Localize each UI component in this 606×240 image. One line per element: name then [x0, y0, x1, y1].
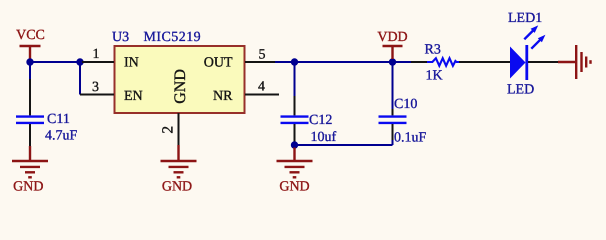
svg-text:GND: GND	[13, 180, 43, 195]
svg-text:GND: GND	[162, 180, 192, 195]
power symbol VDD	[377, 30, 407, 59]
svg-text:1: 1	[93, 47, 100, 62]
wire OUT to R3	[275, 61, 411, 63]
svg-text:4: 4	[258, 80, 265, 95]
node A junction	[76, 58, 83, 65]
svg-text:C10: C10	[394, 97, 417, 112]
svg-text:GND: GND	[279, 180, 309, 195]
svg-text:MIC5219: MIC5219	[144, 30, 202, 45]
svg-text:LED1: LED1	[508, 11, 542, 26]
svg-text:C11: C11	[47, 112, 70, 127]
svg-text:LED: LED	[507, 83, 534, 98]
wire LED to ground	[528, 61, 559, 63]
pin 2 GND	[160, 113, 179, 146]
pin 1 IN	[82, 47, 114, 62]
svg-text:C12: C12	[309, 113, 332, 128]
wire node A down to EN	[79, 61, 81, 95]
LED LED1	[510, 25, 545, 80]
power symbol VCC	[16, 28, 45, 62]
svg-text:VCC: VCC	[16, 28, 45, 43]
IC U3 MIC5219 voltage regulator	[112, 30, 245, 113]
svg-text:2: 2	[160, 126, 177, 134]
resistor R3	[411, 58, 510, 66]
svg-text:0.1uF: 0.1uF	[394, 131, 427, 146]
ground GND (left)	[12, 146, 48, 195]
pin 5 OUT	[245, 48, 276, 63]
node OUT junction	[291, 58, 298, 65]
wire VDD down to C10	[392, 62, 394, 110]
svg-text:IN: IN	[124, 56, 139, 71]
capacitor C10	[379, 109, 407, 140]
svg-text:VDD: VDD	[377, 30, 407, 45]
wire C12 to C10 bottom	[295, 144, 393, 146]
svg-text:5: 5	[259, 48, 266, 63]
wire VCC to node A	[30, 61, 82, 63]
node VDD junction	[389, 58, 396, 65]
svg-text:OUT: OUT	[204, 56, 233, 71]
ground (right, rotated GND symbol)	[558, 45, 591, 79]
svg-text:NR: NR	[213, 89, 233, 104]
wire down to C12	[294, 62, 296, 97]
svg-text:R3: R3	[425, 43, 441, 58]
svg-text:10uf: 10uf	[311, 130, 337, 145]
svg-text:GND: GND	[172, 69, 189, 104]
ground GND (under C12)	[277, 148, 313, 195]
wire C10 bottom drop	[392, 139, 394, 145]
ground GND (middle, pin2)	[161, 145, 197, 195]
pin 4 NR	[245, 80, 279, 95]
pin 3 EN	[80, 80, 114, 95]
svg-text:1K: 1K	[426, 69, 443, 84]
node C12 junction	[291, 141, 298, 148]
svg-text:4.7uF: 4.7uF	[45, 129, 78, 144]
svg-text:3: 3	[92, 80, 99, 95]
wire VCC down to C11	[29, 62, 31, 80]
junction VCC	[26, 58, 33, 65]
capacitor C12	[281, 96, 309, 142]
capacitor C11	[16, 79, 44, 147]
svg-text:EN: EN	[124, 89, 143, 104]
svg-text:U3: U3	[112, 30, 129, 45]
